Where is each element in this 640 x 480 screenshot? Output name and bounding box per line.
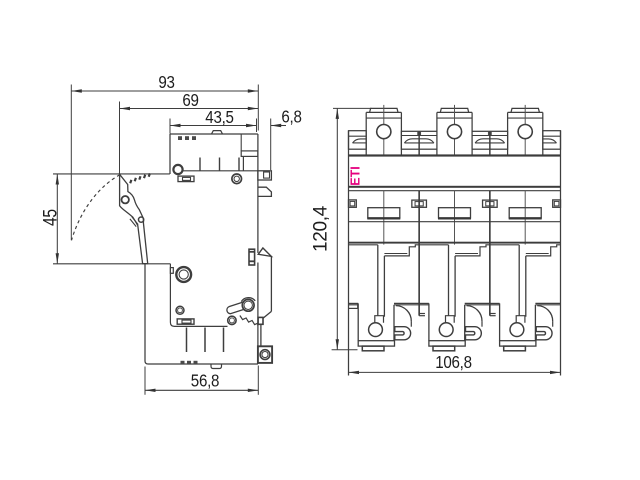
front view: pole 3 centerline mid — [524, 191, 526, 245]
front view: pole 2 tower centerline — [454, 105, 456, 155]
front view: pole 2 terminal screw — [447, 125, 461, 139]
svg-text:45: 45 — [39, 209, 61, 226]
front view: pole 3 arc piece — [534, 305, 536, 341]
front view: pole 2 lever stem — [448, 245, 450, 316]
extension line left of 43,5 — [169, 119, 171, 134]
svg-text:6,8: 6,8 — [281, 108, 301, 127]
extension line right of 56,8 — [257, 366, 259, 395]
side view: small circle boss — [176, 306, 184, 314]
side view: lower latch window — [177, 319, 194, 324]
svg-text:93: 93 — [158, 73, 175, 92]
front view: pole 1 left bottom step — [349, 307, 358, 309]
front view: right edge / extension line — [560, 131, 562, 376]
front view: 106,8 dimension line — [349, 371, 561, 373]
front view: pole 2 fuse window — [439, 208, 471, 218]
side view: middle circle boss — [232, 174, 242, 184]
side view: body right edge lower — [257, 263, 259, 365]
front view: pole boundary upper vertical 2 — [489, 131, 491, 154]
front view: pole 2 case bottom lines — [419, 302, 429, 304]
side view: bottom lever cap arc — [241, 298, 255, 302]
front view: 120,4 dimension line — [336, 108, 338, 349]
dimension 93 line — [71, 90, 258, 92]
front view: pole 2 centerline mid — [454, 191, 456, 245]
front view: pole 2 recess step — [455, 245, 490, 256]
side view: DIN clip second tab — [258, 187, 272, 196]
side view: operating lever outline (open) — [120, 174, 148, 263]
side view: carrier top clip bump — [212, 131, 223, 134]
front view: thin line under band — [349, 190, 561, 192]
extension line right of 43,5 — [256, 119, 258, 133]
side view: big screw circle — [176, 267, 191, 282]
side view: bottom lever arm — [227, 302, 244, 314]
front view: pole 2 foot block — [428, 303, 430, 340]
dimension 45 line (vertical) — [56, 174, 58, 264]
front view: pole 3 tower body — [508, 111, 543, 113]
front view: pole 3 terminal tower cap — [511, 108, 539, 112]
side view: lever pivot hole — [122, 196, 129, 203]
front view: pole 1 terminal tower cap — [370, 108, 398, 112]
side view: DIN pawl edge — [270, 256, 272, 311]
extension line top of 45 / lever open top line — [53, 173, 170, 175]
front view: left edge / extension line — [348, 131, 350, 376]
side view: three vent squares under top edge — [178, 136, 182, 140]
dimension 6,8 tail and arrow — [271, 125, 286, 127]
front view: extension line bottom of 120,4 — [332, 349, 358, 351]
side view: lever spring lines — [132, 217, 138, 225]
side view: DIN latch spring — [249, 249, 255, 265]
front view: pole 2 lower screw circle — [439, 323, 453, 337]
side view: bottom lever small circle — [228, 316, 236, 324]
front view: pole 3 case bottom lines — [490, 302, 500, 304]
svg-text:120,4: 120,4 — [311, 205, 332, 252]
side view: bottom rounded notch bump — [211, 364, 222, 369]
front view: pole 1 recess step — [384, 245, 419, 256]
side view: rear inner wall lower vertical — [242, 156, 244, 170]
side view: bottom mount circles — [260, 350, 270, 360]
front view: pole 2 tower body — [437, 111, 472, 113]
extension line right of 93 and 69 — [257, 85, 259, 131]
side view: carrier left edge — [169, 134, 171, 174]
front view: pole boundary square 1 — [417, 131, 421, 135]
front view: pole 3 fuse window — [509, 208, 541, 218]
extension line right of 6,8 — [270, 119, 272, 171]
front view: pole 1 arc piece — [393, 305, 395, 341]
front view: band bottom thick line — [349, 186, 561, 188]
side view: inner wall tab — [170, 268, 173, 274]
side view: top screw circle — [173, 165, 182, 174]
front view: pole 1 terminal screw — [377, 125, 391, 139]
side view: DIN pawl foot — [258, 317, 263, 324]
front view: pole 1 lower block top line — [349, 244, 378, 246]
front view: pole 2 lever neck — [446, 316, 455, 323]
front view: pole boundary vertical 1 — [418, 191, 420, 316]
front view: band top thick line — [349, 154, 561, 156]
front view: pole 3 recess step — [526, 245, 561, 256]
front view: right end clip piece — [543, 131, 561, 150]
dimension 69 line — [120, 108, 259, 110]
front view: inter-pole clip piece 2 — [472, 131, 508, 149]
front view: pole 1 case bottom lines — [349, 302, 359, 304]
front view: pole 2 cable fork — [466, 327, 482, 340]
side view: DIN pawl rod — [260, 324, 262, 346]
extension line left of 69 — [119, 102, 121, 207]
side view: rear wall vertical — [240, 134, 242, 151]
side view: sawtooth rack — [240, 316, 258, 326]
front view: pole 1 lower screw circle — [369, 323, 383, 337]
side view: lower body left edge — [144, 264, 146, 361]
front view: pole 2 terminal tower cap — [440, 108, 468, 112]
side view: carrier slots — [199, 158, 201, 171]
front view: pole 1 lever neck — [375, 316, 384, 323]
extension line left of 56,8 — [144, 367, 146, 395]
front view: pole 3 cable fork — [536, 327, 552, 340]
side view: bottom edge with rounded corner — [145, 361, 258, 364]
side view: inner face with rounded corner — [170, 264, 227, 327]
side view: DIN pawl chamfer — [263, 311, 271, 318]
front view: pole 3 left bottom step — [490, 313, 496, 315]
side view: rear step flange — [241, 151, 258, 157]
side view: lever hook pin circle — [139, 217, 144, 222]
side view: three squares on bottom edge — [181, 361, 185, 364]
side view: top latch window — [178, 176, 194, 182]
front view: pole 3 terminal screw — [518, 125, 532, 139]
front view: boundary latch 2 — [483, 200, 498, 207]
front view: pole 3 lower block top line — [490, 244, 519, 246]
front view: boundary latch 1 — [412, 200, 427, 207]
side view: bottom lever big circle — [242, 299, 254, 311]
front view: pole 3 tower centerline — [524, 105, 526, 155]
front view: pole boundary square 2 — [488, 131, 492, 135]
svg-text:56,8: 56,8 — [191, 372, 220, 391]
extension line left of 93 — [70, 85, 72, 241]
dimension 43,5 line — [170, 125, 257, 127]
front view: pole 1 fuse window — [368, 208, 400, 218]
side view: fuse carrier top edge — [170, 133, 258, 135]
front view: pole 3 lever stem — [518, 245, 520, 316]
svg-text:69: 69 — [182, 91, 199, 110]
front view: pole 2 left bottom step — [419, 313, 425, 315]
front view: extension line top of 120,4 — [333, 107, 372, 109]
front view: thin line under windows — [349, 221, 561, 223]
side view: lever swing dashed arc — [72, 175, 120, 241]
svg-text:ETI: ETI — [349, 166, 363, 185]
front view: pole 1 lever stem — [377, 245, 379, 316]
side view: lever grip serration dashes — [130, 180, 131, 183]
side view: bottom mount square — [258, 346, 272, 363]
front view: pole 1 centerline mid — [383, 191, 385, 245]
front view: pole 1 tower centerline — [383, 105, 385, 155]
front view: pole 1 foot block — [357, 303, 359, 340]
side view: DIN clip upper tab — [258, 171, 272, 180]
front view: left edge latch — [349, 200, 357, 207]
svg-text:43,5: 43,5 — [205, 108, 234, 127]
front view: inter-pole clip piece 1 — [401, 131, 437, 149]
front view: pole 3 lever neck — [516, 316, 525, 323]
front view: pole 3 lower screw circle — [510, 323, 524, 337]
svg-text:106,8: 106,8 — [435, 353, 472, 372]
side view: body right edge upper — [257, 134, 259, 253]
front view: pole boundary upper vertical 1 — [418, 131, 420, 154]
side view: DIN pawl wedge — [258, 248, 271, 256]
side view: bottom terminal slots — [186, 328, 188, 353]
front view: right edge latch — [553, 200, 561, 207]
front view: pole 1 tower body — [366, 111, 401, 113]
side view: body top line behind lever — [183, 170, 258, 172]
front view: pole 1 cable fork — [395, 327, 411, 340]
front view: pole boundary vertical 2 — [489, 191, 491, 316]
front view: mid thick line — [349, 242, 561, 244]
front view: pole 3 foot block — [499, 303, 501, 340]
extension line bottom of 45 / body step line — [53, 263, 170, 265]
front view: pole 2 arc piece — [464, 305, 466, 341]
dimension 56,8 line — [145, 389, 258, 391]
front view: pole 2 lower block top line — [419, 244, 448, 246]
front view: left end clip piece — [349, 131, 367, 150]
